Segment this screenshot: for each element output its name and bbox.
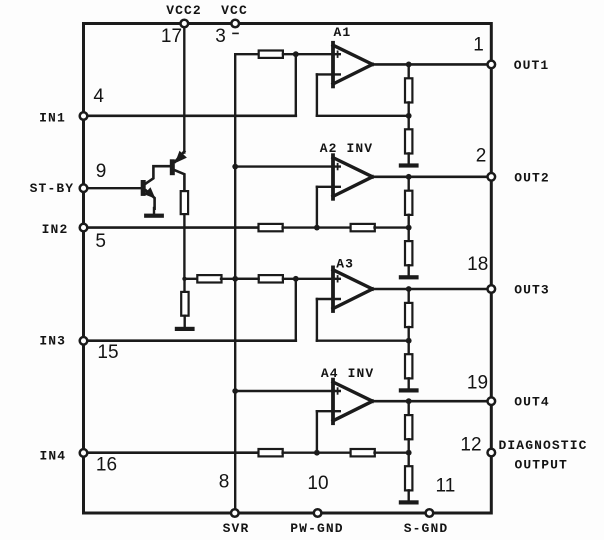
svg-text:IN1: IN1 [39,110,66,125]
svg-text:8: 8 [219,471,230,492]
svg-text:19: 19 [467,373,488,394]
svg-text:A1: A1 [333,25,351,40]
svg-text:PW-GND: PW-GND [290,521,343,536]
svg-text:9: 9 [96,161,107,182]
svg-text:3: 3 [215,26,226,47]
svg-text:OUT2: OUT2 [514,170,550,185]
svg-text:10: 10 [307,473,328,494]
svg-text:OUTPUT: OUTPUT [514,457,567,472]
svg-text:11: 11 [436,475,456,496]
svg-text:SVR: SVR [223,521,250,536]
svg-text:1: 1 [473,34,484,55]
svg-text:16: 16 [96,455,117,476]
svg-text:OUT1: OUT1 [514,58,550,73]
svg-text:17: 17 [161,26,182,47]
svg-text:5: 5 [95,231,106,252]
svg-text:A4 INV: A4 INV [321,366,374,381]
svg-text:S-GND: S-GND [404,521,449,536]
svg-text:IN2: IN2 [42,222,69,237]
svg-text:18: 18 [467,254,488,275]
svg-text:VCC: VCC [221,3,248,18]
svg-text:ST-BY: ST-BY [30,181,75,196]
svg-text:4: 4 [93,86,104,107]
svg-text:OUT4: OUT4 [514,395,550,410]
svg-text:DIAGNOSTIC: DIAGNOSTIC [498,438,587,453]
svg-text:15: 15 [97,342,118,363]
svg-text:VCC2: VCC2 [166,3,202,18]
svg-text:A3: A3 [336,256,354,271]
svg-text:OUT3: OUT3 [514,283,550,298]
svg-text:12: 12 [460,435,481,456]
svg-text:A2 INV: A2 INV [320,141,373,156]
svg-text:IN3: IN3 [39,334,66,349]
svg-text:2: 2 [476,145,487,166]
svg-text:IN4: IN4 [39,449,66,464]
